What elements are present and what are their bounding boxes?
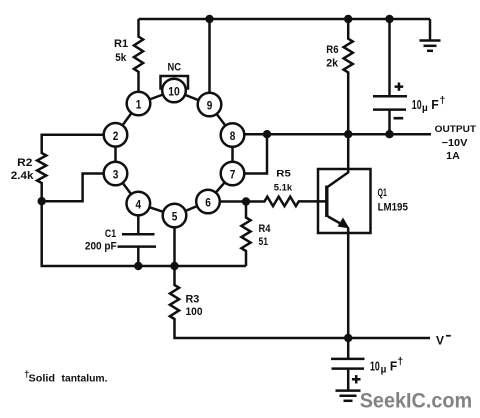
svg-text:R4: R4 [259,223,272,235]
svg-text:200 pF: 200 pF [85,240,117,252]
svg-text:R2: R2 [17,157,32,169]
svg-text:8: 8 [230,129,236,143]
svg-text:R1: R1 [114,38,128,50]
svg-text:51: 51 [259,236,269,248]
svg-text:4: 4 [136,198,142,212]
svg-text:R6: R6 [326,44,338,56]
svg-text:5: 5 [172,210,178,224]
svg-text:5.1k: 5.1k [274,182,293,193]
svg-text:−10V: −10V [442,138,468,149]
svg-text:OUTPUT: OUTPUT [435,124,476,135]
svg-text:C1: C1 [105,228,116,240]
svg-text:NC: NC [168,61,182,73]
svg-text:R3: R3 [186,293,200,305]
svg-text:2k: 2k [326,58,339,70]
svg-text:10: 10 [370,360,380,374]
svg-text:F: F [431,98,439,112]
svg-text:6: 6 [205,196,211,210]
svg-text:1: 1 [136,98,142,112]
svg-text:LM195: LM195 [378,202,408,214]
svg-text:9: 9 [207,99,213,113]
svg-text:2.4k: 2.4k [11,170,35,182]
svg-text:V: V [436,333,444,347]
svg-text:F: F [390,360,398,374]
svg-text:7: 7 [230,168,236,182]
svg-text:10: 10 [168,85,180,99]
svg-text:R5: R5 [276,168,291,179]
svg-text:100: 100 [186,306,203,318]
svg-text:2: 2 [113,129,119,143]
svg-text:Solid: Solid [29,373,56,385]
svg-text:SeekIC.com: SeekIC.com [360,389,473,413]
svg-text:tantalum.: tantalum. [62,373,108,385]
svg-text:Q1: Q1 [378,187,387,199]
svg-text:µ: µ [381,364,387,375]
svg-text:5k: 5k [115,52,127,64]
svg-text:†: † [440,94,446,106]
svg-text:10: 10 [412,98,422,112]
svg-text:µ: µ [422,103,428,114]
svg-text:1A: 1A [446,151,460,162]
svg-text:3: 3 [113,168,119,182]
svg-text:†: † [397,356,403,368]
